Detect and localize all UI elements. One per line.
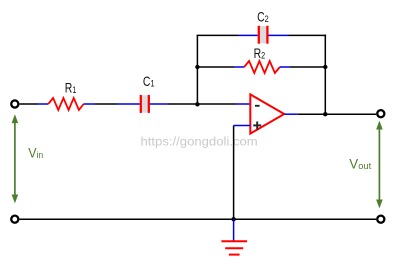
op-amp minus pin label <box>255 105 260 107</box>
wire: ground stub (blue) <box>233 219 235 241</box>
wire: top rail right segment <box>289 34 327 36</box>
wire: input terminal to R1 <box>19 103 37 105</box>
wire: R2 right connecting wire <box>290 66 325 68</box>
wire: op-amp inverting input lead (blue) <box>237 103 251 105</box>
resistor R1 <box>48 98 83 110</box>
wire: R2 left connecting wire <box>197 66 234 68</box>
bottom rail wire <box>20 218 377 220</box>
wire: top rail left segment to C2 <box>197 34 239 36</box>
node A junction (input node) <box>195 102 199 106</box>
ground symbol <box>221 241 247 254</box>
wire: C1 right lead (blue) <box>150 103 168 105</box>
op-amp U1 <box>250 94 284 133</box>
bottom left terminal <box>11 216 18 223</box>
wire: C2 right lead (blue) <box>269 34 289 36</box>
svg-text:https://gongdoli.com: https://gongdoli.com <box>141 135 258 149</box>
output terminal (right, Vout top) <box>377 110 384 117</box>
node: output junction <box>323 112 327 116</box>
input terminal (left, Vin top) <box>11 100 18 107</box>
wire: op-amp output lead (blue) <box>284 113 298 115</box>
wire: output to terminal <box>298 113 377 115</box>
node: ground junction on bottom rail <box>231 217 235 221</box>
wire: R2 left lead (blue) <box>234 66 244 68</box>
node: junction at R2 left <box>195 65 199 69</box>
capacitor C1 <box>141 95 149 113</box>
wire: R1 left lead (blue) <box>38 103 49 105</box>
Vout measurement arrow <box>376 121 383 209</box>
resistor R2 <box>244 61 280 73</box>
wire: non-inverting input lead (blue) <box>234 125 251 127</box>
wire: R1 to C1 <box>95 103 118 105</box>
wire: C2 left lead (blue) <box>239 34 258 36</box>
wire: R2 right lead (blue) <box>280 66 290 68</box>
wire: C1 left lead (blue) <box>118 103 140 105</box>
wire: feedback left vertical <box>196 35 198 104</box>
capacitor C2 <box>259 26 268 44</box>
bottom right terminal <box>377 216 384 223</box>
wire: C1 to node A <box>168 103 237 105</box>
wire: non-inverting input down to ground rail <box>233 126 235 220</box>
op-amp plus pin label <box>253 122 261 130</box>
wire: R1 right lead (blue) <box>84 103 95 105</box>
wire: feedback right vertical <box>324 35 326 115</box>
Vin measurement arrow <box>12 114 19 203</box>
node: junction at R2 right <box>323 65 327 69</box>
